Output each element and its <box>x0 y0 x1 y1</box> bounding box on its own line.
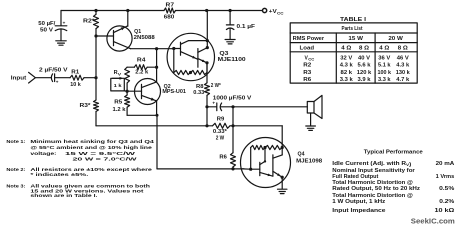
junction: Q1 base node (R2/R3 column) <box>94 34 97 37</box>
svg-text:50 µF/: 50 µF/ <box>38 21 56 27</box>
ground (below C1) <box>56 41 66 45</box>
junction: rail / Q1 top lead <box>126 9 129 12</box>
table row R6 <box>303 77 409 83</box>
wire: bias vertical to Q2 collector <box>156 49 158 82</box>
watermark SeekIC.com <box>411 216 455 225</box>
label R4 value 2.2 k <box>135 70 148 76</box>
table row RMS Power <box>293 36 404 42</box>
typical performance title <box>364 149 423 155</box>
resistor R1 <box>70 75 96 80</box>
label R1 value 10 k <box>70 82 81 88</box>
svg-text:RMS Power: RMS Power <box>293 36 325 42</box>
label RV value 1 k <box>114 83 123 88</box>
junction: output node (R8/C3) <box>205 105 208 108</box>
potentiometer RV (1 k trimmer) <box>111 67 130 91</box>
svg-text:R1: R1 <box>71 70 79 76</box>
svg-text:15 W: 15 W <box>348 36 363 42</box>
svg-text:Note 3:: Note 3: <box>6 184 26 189</box>
note 1 text <box>6 139 154 161</box>
svg-text:1000 µF/50 V: 1000 µF/50 V <box>213 95 252 101</box>
svg-text:MJE1098: MJE1098 <box>296 158 322 164</box>
svg-text:20 W: 20 W <box>388 36 403 42</box>
svg-text:46 V: 46 V <box>397 55 410 61</box>
label Q4 type MJE1098 <box>296 158 322 164</box>
wire: feedback run R3 to R9 <box>96 125 207 127</box>
svg-text:10 k: 10 k <box>70 82 81 88</box>
svg-text:R7: R7 <box>166 3 175 9</box>
wire: Q2 emitter drop <box>156 101 158 115</box>
junction: bias network tap <box>155 47 158 50</box>
svg-text:0.33: 0.33 <box>193 90 204 96</box>
svg-text:4 Ω: 4 Ω <box>341 45 351 51</box>
ground (below C4) <box>225 40 235 44</box>
junction: R9 right node <box>231 124 234 127</box>
junction: rail / R2 top <box>94 9 97 12</box>
label R4 <box>137 58 146 64</box>
label Q2 <box>164 84 171 90</box>
resistor R3 <box>94 100 99 126</box>
svg-text:MPS-U01: MPS-U01 <box>162 89 186 95</box>
label R3* <box>80 103 92 109</box>
svg-text:+: + <box>63 21 66 26</box>
junction: rail / C4 <box>229 9 232 12</box>
svg-text:Rated Output, 50 Hz to 20 kHz: Rated Output, 50 Hz to 20 kHz <box>332 186 420 192</box>
svg-text:2.2 k: 2.2 k <box>135 70 148 76</box>
svg-text:+V: +V <box>269 9 277 15</box>
transistor Q3 (Darlington MJE1100) <box>167 33 214 83</box>
label Input terminal <box>11 76 27 82</box>
typical performance list <box>332 161 455 214</box>
svg-text:8 Ω: 8 Ω <box>359 45 369 51</box>
svg-text:CC: CC <box>277 10 284 15</box>
svg-text:40 V: 40 V <box>358 55 371 61</box>
svg-text:2 µF/50 V: 2 µF/50 V <box>39 68 68 74</box>
wire: rail to Q3 collector <box>206 11 208 48</box>
note 2 text <box>6 167 152 177</box>
svg-text:3.3 k: 3.3 k <box>340 77 353 83</box>
label R9 value 0.33* <box>213 129 228 135</box>
junction: R6 bottom / Q4 base run <box>231 167 234 170</box>
transistor Q4 (Darlington MJE1098) <box>241 138 291 189</box>
capacitor C1 50 uF supply filter <box>55 21 67 41</box>
speaker LS1 <box>307 95 322 118</box>
svg-text:Note 1:: Note 1: <box>6 139 26 144</box>
svg-text:1 W Output, 1 kHz: 1 W Output, 1 kHz <box>332 199 386 205</box>
wire: output node to C3 <box>207 106 216 108</box>
svg-text:Input: Input <box>11 76 27 82</box>
input connector arrow <box>29 72 36 83</box>
svg-text:1.2 k: 1.2 k <box>113 107 126 113</box>
label R7 value 680 <box>164 15 175 21</box>
svg-text:20 mA: 20 mA <box>436 161 455 167</box>
table header Parts List <box>342 26 363 32</box>
svg-text:+: + <box>56 79 59 84</box>
wire: speaker to ground <box>310 113 312 126</box>
svg-text:shown are in Table I.: shown are in Table I. <box>30 193 97 198</box>
svg-text:R5: R5 <box>114 99 122 105</box>
ground (speaker return) <box>306 126 316 130</box>
label R7 <box>166 3 175 9</box>
svg-text:1 k: 1 k <box>114 83 123 88</box>
junction: Q2 base node <box>126 90 129 93</box>
svg-text:MJE1100: MJE1100 <box>218 57 246 63</box>
svg-text:100 k: 100 k <box>378 70 392 76</box>
svg-text:Idle Current (Adj. with RV): Idle Current (Adj. with RV) <box>332 161 411 168</box>
label R9 power 2 W <box>216 136 225 142</box>
junction: C3 / R9-R6 branch <box>231 105 234 108</box>
junction: R9 left node <box>205 124 208 127</box>
svg-text:4.7 k: 4.7 k <box>396 77 409 83</box>
label R9 <box>217 117 225 123</box>
label Q4 <box>298 151 305 157</box>
capacitor C3 1000 uF output coupling <box>212 101 233 111</box>
svg-text:CC: CC <box>308 58 314 62</box>
svg-text:0.1 µF: 0.1 µF <box>237 24 256 30</box>
svg-text:Parts List: Parts List <box>342 26 363 32</box>
svg-text:R6: R6 <box>303 77 311 83</box>
wire: C3 node down to R9 node <box>232 107 234 126</box>
svg-text:0.33*: 0.33* <box>213 129 228 135</box>
svg-text:R6: R6 <box>219 154 227 160</box>
wire: emitter column to bottom run <box>156 115 158 169</box>
junction: rail / Q3 collector <box>205 9 208 12</box>
svg-text:1 Vrms: 1 Vrms <box>436 174 455 180</box>
wire: +VCC supply rail (left of R7) <box>61 10 164 12</box>
svg-text:32 V: 32 V <box>340 55 353 61</box>
svg-text:TABLE I: TABLE I <box>340 17 367 23</box>
svg-text:Note 2:: Note 2: <box>6 167 26 172</box>
svg-text:R2: R2 <box>303 63 311 69</box>
svg-text:R3*: R3* <box>80 103 92 109</box>
label R5 value 1.2 k <box>113 107 126 113</box>
svg-text:680: 680 <box>164 15 175 21</box>
resistor R6 <box>231 126 236 169</box>
wire: bottom run to Q4 base <box>157 168 244 170</box>
label R1 <box>71 70 79 76</box>
table row Load <box>300 45 408 51</box>
svg-text:0.2%: 0.2% <box>439 199 455 205</box>
svg-text:SeekIC.com: SeekIC.com <box>411 216 455 225</box>
resistor R4 <box>127 65 157 70</box>
svg-text:4 Ω: 4 Ω <box>379 45 389 51</box>
resistor R7 <box>164 8 176 13</box>
label C3 value 1000 uF/50 V <box>213 95 252 101</box>
table row VCC <box>305 55 410 61</box>
label C2 value 2 uF/50 V <box>39 68 68 74</box>
wire: +VCC supply rail (right of R7) <box>176 10 264 12</box>
wire: R9 node to Q4 collector <box>233 126 282 148</box>
label R8 value 0.33 <box>193 90 204 96</box>
svg-text:Input Impedance: Input Impedance <box>332 208 385 214</box>
svg-text:@ 55°C ambient and @ 10% high: @ 55°C ambient and @ 10% high line <box>30 145 152 150</box>
wire: Q1 to Q3 base <box>131 48 174 50</box>
svg-text:0.5%: 0.5% <box>439 186 455 192</box>
label R6 <box>219 154 227 160</box>
label C4 value 0.1 uF <box>237 24 256 30</box>
svg-text:4.3 k: 4.3 k <box>340 63 353 69</box>
table row R3 <box>303 70 410 76</box>
capacitor C4 0.1 uF bypass <box>226 11 234 39</box>
label Q1 <box>134 29 141 35</box>
svg-text:3.3 k: 3.3 k <box>378 77 391 83</box>
svg-text:V: V <box>118 71 122 76</box>
label TABLE I title <box>340 17 367 23</box>
resistor R2 <box>94 11 99 37</box>
svg-text:+: + <box>212 101 215 106</box>
wire: base node to Q2 <box>127 90 135 92</box>
label RV <box>114 70 122 76</box>
svg-text:Typical Performance: Typical Performance <box>364 149 423 155</box>
svg-text:130 k: 130 k <box>396 70 410 76</box>
svg-text:8 Ω: 8 Ω <box>398 45 408 51</box>
svg-text:120 k: 120 k <box>357 70 372 76</box>
label Q3 type MJE1100 <box>218 57 246 63</box>
terminal +VCC <box>263 8 284 15</box>
svg-text:20 W = 7.0°C/W: 20 W = 7.0°C/W <box>73 156 138 161</box>
note 3 text <box>6 184 150 198</box>
label C1 value 50 uF / 50 V <box>38 21 56 33</box>
capacitor C2 2 uF input coupling <box>51 74 70 84</box>
wire: output node down to R9 <box>206 107 208 126</box>
wire: C3 to speaker <box>233 106 307 108</box>
svg-text:voltage:: voltage: <box>30 151 57 156</box>
svg-text:10 kΩ: 10 kΩ <box>435 208 455 214</box>
svg-text:3.9 k: 3.9 k <box>358 77 371 83</box>
svg-text:Load: Load <box>300 45 315 51</box>
transistor Q2 <box>135 79 161 105</box>
svg-text:36 V: 36 V <box>378 55 391 61</box>
label R8 <box>196 84 204 90</box>
svg-text:R3: R3 <box>303 70 311 76</box>
wire: rail to Q1 emitter <box>127 11 129 27</box>
svg-text:50 V: 50 V <box>40 28 54 34</box>
svg-text:2 W: 2 W <box>216 136 225 142</box>
svg-text:Q4: Q4 <box>298 151 305 157</box>
label Q1 type 2N5088 <box>134 35 155 41</box>
svg-text:Minimum heat sinking for Q3 an: Minimum heat sinking for Q3 and Q4 <box>30 139 154 144</box>
transistor Q1 <box>107 26 132 51</box>
wire: rail corner down to C1 <box>60 11 62 26</box>
label R5 <box>114 99 122 105</box>
label R8 power 2 W* <box>211 83 222 89</box>
svg-text:2 W*: 2 W* <box>211 83 222 89</box>
svg-text:4.3 k: 4.3 k <box>396 63 409 69</box>
svg-text:R4: R4 <box>137 58 146 64</box>
svg-text:5.6 k: 5.6 k <box>358 63 371 69</box>
svg-text:R2*: R2* <box>83 18 96 24</box>
junction: input node <box>94 76 97 79</box>
ground (Q4 emitter) <box>278 189 287 193</box>
label Q3 <box>219 51 228 57</box>
wire: R2-R3 column through input node <box>95 36 97 100</box>
label R2* <box>83 18 96 24</box>
svg-text:82 k: 82 k <box>341 70 353 76</box>
label Q2 type MPS-U01 <box>162 89 186 95</box>
resistor R8 <box>205 83 210 107</box>
svg-text:* indicates ±5%.: * indicates ±5%. <box>30 172 88 177</box>
wire: base node to Q1 base <box>96 35 107 37</box>
resistor R9 <box>207 123 233 128</box>
table border (TABLE I parts list) <box>290 23 417 83</box>
junction: R5 / Q2 emitter <box>156 114 159 117</box>
table row R2 <box>303 63 409 69</box>
resistor R5 <box>125 91 157 115</box>
junction: R4 right end <box>155 66 158 69</box>
svg-text:15 W = 9.5°C/W: 15 W = 9.5°C/W <box>65 151 136 156</box>
svg-text:2N5088: 2N5088 <box>134 35 155 41</box>
wire: input to C2 <box>35 77 51 79</box>
svg-text:R9: R9 <box>217 117 225 123</box>
svg-text:5.1 k: 5.1 k <box>378 63 391 69</box>
